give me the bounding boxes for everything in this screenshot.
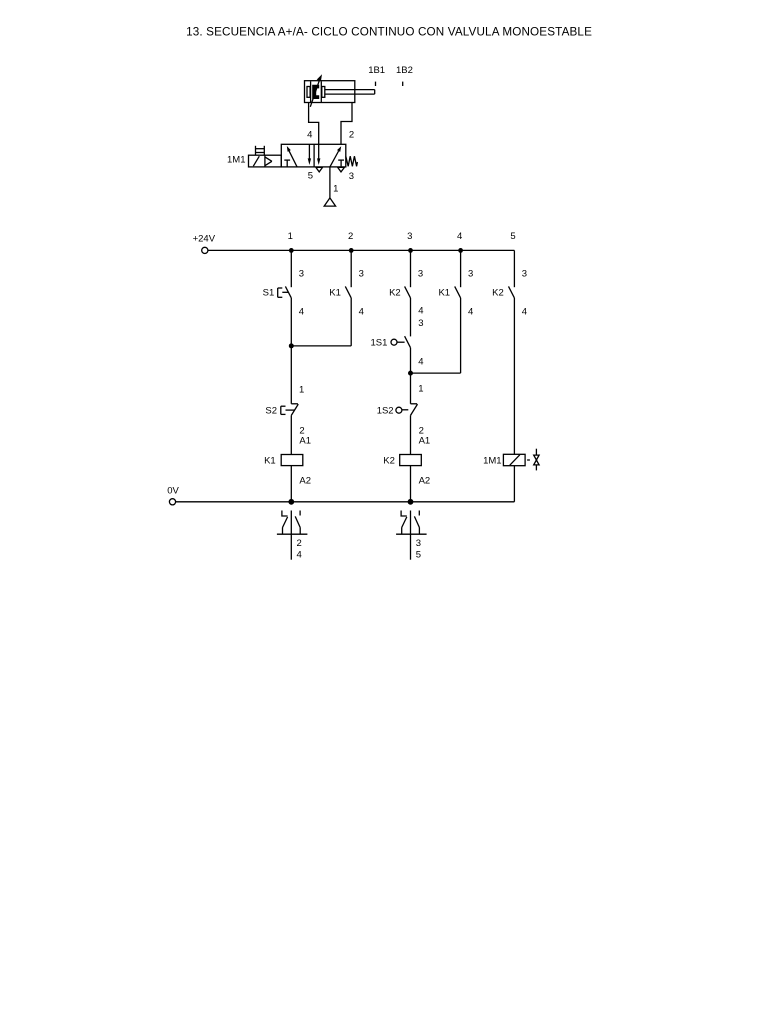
svg-text:3: 3: [349, 171, 354, 182]
svg-text:1: 1: [288, 231, 293, 242]
svg-text:4: 4: [297, 550, 302, 561]
svg-text:5: 5: [308, 171, 313, 182]
svg-text:4: 4: [307, 129, 312, 140]
svg-text:2: 2: [349, 129, 354, 140]
svg-text:+24V: +24V: [193, 234, 216, 245]
svg-text:1S1: 1S1: [370, 337, 387, 348]
svg-text:4: 4: [468, 307, 473, 318]
svg-text:3: 3: [418, 268, 423, 279]
svg-text:3: 3: [299, 268, 304, 279]
svg-text:3: 3: [468, 268, 473, 279]
svg-text:1M1: 1M1: [227, 155, 245, 166]
svg-text:5: 5: [510, 231, 515, 242]
svg-text:3: 3: [359, 268, 364, 279]
svg-text:K1: K1: [438, 288, 450, 299]
svg-text:13. SECUENCIA A+/A- CICLO CONT: 13. SECUENCIA A+/A- CICLO CONTINUO CON V…: [186, 25, 592, 38]
svg-text:1B1: 1B1: [368, 65, 385, 76]
svg-text:3: 3: [522, 268, 527, 279]
svg-text:K1: K1: [329, 288, 341, 299]
svg-text:A1: A1: [299, 435, 311, 446]
svg-text:A2: A2: [419, 475, 431, 486]
svg-text:K2: K2: [389, 288, 401, 299]
svg-text:4: 4: [457, 231, 462, 242]
svg-text:2: 2: [348, 231, 353, 242]
svg-text:4: 4: [418, 306, 423, 317]
svg-text:4: 4: [522, 307, 527, 318]
svg-text:S1: S1: [263, 288, 275, 299]
svg-text:1: 1: [418, 384, 423, 395]
svg-text:1B2: 1B2: [396, 65, 413, 76]
svg-text:2: 2: [297, 538, 302, 549]
svg-text:S2: S2: [265, 406, 277, 417]
svg-text:1: 1: [299, 385, 304, 396]
svg-text:K2: K2: [383, 455, 395, 466]
svg-text:4: 4: [299, 307, 304, 318]
svg-text:4: 4: [359, 307, 364, 318]
svg-text:K2: K2: [492, 288, 504, 299]
svg-text:1S2: 1S2: [377, 406, 394, 417]
svg-text:A1: A1: [419, 435, 431, 446]
svg-text:4: 4: [418, 356, 423, 367]
svg-text:1: 1: [333, 184, 338, 195]
svg-text:3: 3: [418, 318, 423, 329]
svg-text:3: 3: [407, 231, 412, 242]
svg-text:3: 3: [416, 538, 421, 549]
svg-text:5: 5: [416, 550, 421, 561]
svg-text:1M1: 1M1: [483, 455, 501, 466]
svg-text:0V: 0V: [167, 486, 179, 497]
svg-text:A2: A2: [299, 475, 311, 486]
svg-text:K1: K1: [264, 455, 276, 466]
